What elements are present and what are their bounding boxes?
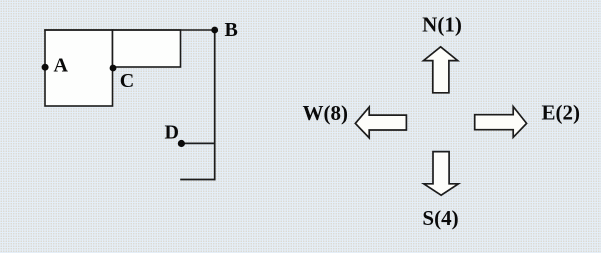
node D bbox=[178, 140, 185, 147]
svg-text:D: D bbox=[165, 122, 179, 144]
svg-text:W(8): W(8) bbox=[303, 101, 349, 125]
svg-text:C: C bbox=[120, 70, 134, 92]
svg-text:S(4): S(4) bbox=[422, 206, 458, 230]
arrow N (block arrow pointing up) bbox=[424, 47, 458, 93]
node C bbox=[110, 65, 117, 72]
arrow W (block arrow pointing left) bbox=[355, 107, 406, 138]
rectangle 1 (left square, node A on its left edge) bbox=[45, 30, 113, 106]
node A bbox=[42, 64, 49, 71]
rectangle 2 (small top rectangle, node C at its lower-left corner) bbox=[113, 30, 181, 67]
wire top edge to node B bbox=[44, 29, 215, 31]
svg-text:E(2): E(2) bbox=[542, 101, 581, 125]
wire bottom bracket bbox=[180, 179, 215, 181]
svg-text:N(1): N(1) bbox=[422, 13, 462, 37]
arrow S (block arrow pointing down) bbox=[424, 152, 459, 196]
arrow E (block arrow pointing right) bbox=[475, 107, 527, 138]
svg-text:B: B bbox=[225, 19, 238, 41]
svg-text:A: A bbox=[54, 54, 69, 76]
node B bbox=[211, 27, 218, 34]
wire horizontal tick at node D bbox=[181, 142, 215, 144]
wire vertical from node B down bbox=[214, 30, 216, 180]
